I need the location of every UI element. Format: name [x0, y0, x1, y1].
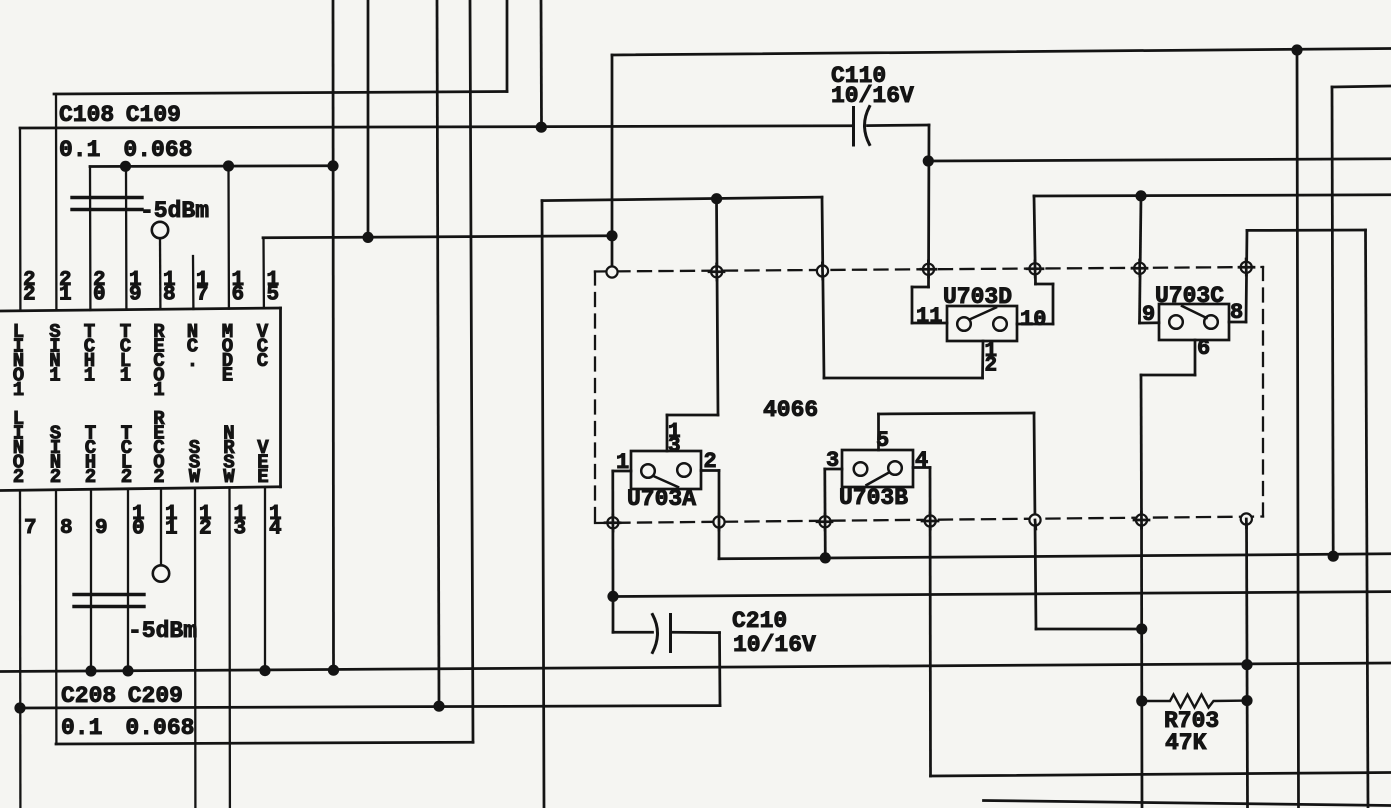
- wire U703B pin4 drop x=930: [929, 468, 932, 777]
- wire vertical x=1246 pin8 drop: [1246, 230, 1247, 322]
- wire vertical x=1332: [1332, 87, 1333, 556]
- junction x333 bottom: [328, 665, 339, 676]
- pin 9 lead: [90, 489, 92, 671]
- svg-text:6: 6: [232, 284, 245, 307]
- svg-text:1: 1: [59, 284, 72, 307]
- svg-text:10/16V: 10/16V: [733, 632, 816, 658]
- svg-text:U703D: U703D: [943, 284, 1012, 310]
- junction ctrlA y199: [711, 193, 722, 204]
- junction pin3 y557: [820, 552, 831, 563]
- svg-text:8: 8: [1230, 300, 1243, 325]
- svg-text:4: 4: [915, 448, 928, 473]
- wire vertical x=543 long: [542, 201, 544, 808]
- svg-text:2: 2: [704, 449, 717, 474]
- wire vertical x=1035 pin10 drop: [1034, 196, 1036, 284]
- junction C108 top: [120, 161, 131, 172]
- junction pin16 bus: [223, 160, 234, 171]
- wire vertical x=929 C110 drop: [927, 125, 930, 287]
- capacitor C210: [653, 615, 658, 653]
- wire vertical x=471: [470, 0, 473, 742]
- svg-text:C108 C109: C108 C109: [59, 102, 181, 128]
- pin 19 lead: [125, 166, 128, 309]
- pin 14 lead: [264, 487, 266, 671]
- test point TP1 -5dBm: [152, 222, 168, 238]
- wire vertical x=1035 ctrlB drop: [1034, 413, 1036, 629]
- junction x1141 y196: [1135, 190, 1146, 201]
- wire U703C pin8 lead: [1229, 321, 1246, 324]
- 4066 boundary pin node x=1035 top: [1029, 263, 1040, 274]
- svg-text:W: W: [223, 466, 235, 488]
- wire net y=802 bottom: [984, 801, 1391, 806]
- junction C209 bus: [122, 665, 133, 676]
- wire net y=706: [20, 706, 720, 708]
- wire U703A pin2 drop x=719: [718, 471, 721, 559]
- junction C208 bus: [85, 665, 96, 676]
- U703A ctrl stub pin13: [666, 415, 669, 451]
- svg-text:8: 8: [60, 517, 73, 540]
- svg-text:5: 5: [876, 428, 889, 453]
- wire U703B pin3 drop x=825: [823, 469, 826, 558]
- junction R703 right: [1241, 695, 1252, 706]
- 4066 boundary pin node x=1139 top: [1134, 263, 1145, 274]
- wire net y=195.5: [1034, 195, 1391, 196]
- svg-text:10/16V: 10/16V: [831, 83, 914, 109]
- pin 17 lead: [192, 256, 195, 309]
- wire U703D pin10 bracket: [1036, 283, 1054, 286]
- wire ctrlD horiz y=378: [824, 377, 983, 380]
- svg-text:-5dBm: -5dBm: [140, 198, 209, 224]
- 4066 boundary pin node x=1035 bottom stub: [1034, 520, 1038, 529]
- junction x1332 y556: [1328, 551, 1339, 562]
- svg-text:E: E: [222, 365, 233, 387]
- svg-text:7: 7: [196, 284, 209, 307]
- wire pin22 bus y=127 left of C110: [20, 126, 853, 128]
- pin 15 lead: [262, 238, 265, 308]
- pin 22 lead: [19, 128, 22, 311]
- wire U703D pin11 bracket: [912, 286, 929, 289]
- svg-text:3: 3: [234, 518, 247, 541]
- wire U703B pin4 lead: [913, 466, 930, 469]
- capacitor C110: [852, 108, 855, 146]
- junction x20 y708: [14, 702, 25, 713]
- wire U703A pin2 lead: [701, 469, 719, 472]
- wire vertical x=1140 pin9 drop: [1140, 196, 1142, 323]
- junction x439 y706: [433, 701, 444, 712]
- junction ctrl y629: [1136, 623, 1147, 634]
- svg-text:-5dBm: -5dBm: [128, 618, 197, 644]
- wire vertical x=717 ctrlA drop: [717, 199, 719, 415]
- wire cap top bus y=166: [90, 164, 333, 167]
- 4066 boundary pin node x=613 bottom: [607, 517, 618, 528]
- svg-text:6: 6: [1197, 336, 1210, 361]
- wire C210 left drop: [612, 597, 615, 633]
- 4066 boundary pin node x=1034 bottom: [1029, 514, 1040, 525]
- pin 13 lead: [228, 487, 231, 808]
- wire VCC bus y=237: [263, 236, 612, 238]
- IC U201 package box: [0, 308, 281, 311]
- svg-text:0: 0: [132, 518, 145, 541]
- junction pin14 bus: [259, 665, 270, 676]
- pin 20 lead: [89, 167, 92, 311]
- wire C110 right to corner: [868, 124, 930, 127]
- svg-text:.: .: [187, 350, 198, 372]
- pin 21 lead: [55, 94, 58, 310]
- svg-text:2: 2: [23, 284, 36, 307]
- svg-text:1: 1: [13, 379, 24, 401]
- wire ctrlC horiz y=375: [1141, 374, 1195, 377]
- pin 7 lead: [19, 490, 22, 808]
- 4066 boundary pin node x=1142 bottom: [1136, 514, 1147, 525]
- svg-text:2: 2: [50, 466, 61, 488]
- svg-text:E: E: [257, 466, 268, 488]
- pin 8 lead: [55, 490, 58, 744]
- U703B ctrl stub pin5: [877, 414, 880, 450]
- svg-text:11: 11: [916, 304, 942, 329]
- pin 12 lead: [194, 488, 197, 808]
- wire vertical x=541 top: [540, 0, 543, 128]
- svg-text:1: 1: [120, 365, 131, 387]
- junction x541 y128: [536, 122, 547, 133]
- svg-text:9: 9: [129, 284, 142, 307]
- 4066 boundary pin node x=612 top: [606, 266, 617, 277]
- svg-text:4: 4: [269, 518, 282, 541]
- svg-text:2: 2: [153, 466, 164, 488]
- junction C210 x613: [607, 591, 618, 602]
- wire C210 left lead: [613, 631, 653, 634]
- junction x1297 y50: [1291, 44, 1302, 55]
- svg-text:8: 8: [163, 284, 176, 307]
- IC 4066 package dashed border: [595, 267, 1263, 523]
- wire C210 right lead: [671, 631, 720, 634]
- pin 10 lead: [127, 489, 129, 671]
- svg-text:1: 1: [153, 379, 164, 401]
- 4066 boundary pin node x=1246 bottom stub: [1245, 519, 1248, 528]
- wire main bus y=667: [0, 663, 1391, 672]
- resistor R703: [1142, 695, 1247, 708]
- analog switch U703C: [1155, 283, 1229, 340]
- svg-text:3: 3: [826, 448, 839, 473]
- svg-text:C: C: [257, 350, 268, 372]
- junction C110 y161: [923, 155, 934, 166]
- wire ctrlB bottom y=629: [1036, 628, 1142, 631]
- pin 11 lead: [160, 488, 162, 565]
- wire net y=230 right: [1247, 229, 1366, 232]
- svg-text:0.1 0.068: 0.1 0.068: [61, 715, 194, 741]
- U703D ctrl stub pin12: [981, 341, 984, 378]
- wire U703B pin3 lead: [825, 468, 842, 471]
- wire net y=557: [719, 554, 1391, 559]
- svg-text:1: 1: [84, 365, 95, 387]
- svg-text:1: 1: [165, 518, 178, 541]
- svg-text:U703C: U703C: [1155, 283, 1224, 309]
- wire vertical x=823 ctrlD drop: [822, 197, 824, 378]
- 4066 boundary pin node x=1246 bottom: [1241, 513, 1252, 524]
- junction R703 left: [1136, 695, 1147, 706]
- wire ctrlB horiz y=414: [879, 413, 1035, 414]
- svg-text:47K: 47K: [1165, 730, 1207, 756]
- wire vertical x=1366: [1366, 230, 1369, 808]
- wire vertical x=1297: [1297, 50, 1299, 808]
- svg-text:4066: 4066: [763, 397, 818, 423]
- svg-text:5: 5: [267, 284, 280, 307]
- wire ctrl bus y=199: [542, 197, 822, 200]
- U703C ctrl stub pin6: [1194, 340, 1197, 375]
- analog switch U703D: [943, 284, 1017, 341]
- wire vertical x=438: [437, 0, 439, 706]
- 4066 boundary pin node x=1246 top: [1241, 262, 1252, 273]
- wire net y=743: [56, 742, 473, 744]
- svg-text:3: 3: [668, 435, 681, 458]
- wire vertical x=333: [332, 0, 335, 671]
- svg-text:9: 9: [1142, 302, 1155, 327]
- svg-text:W: W: [189, 466, 201, 488]
- wire C210 right drop x=720: [718, 633, 721, 706]
- svg-text:2: 2: [985, 355, 998, 378]
- wire net y=160: [928, 159, 1391, 161]
- capacitor C108/C109 plates top: [72, 196, 142, 199]
- svg-text:10: 10: [1020, 307, 1046, 332]
- test point TP2 -5dBm: [153, 565, 169, 581]
- wire pin21 bus y=93: [54, 92, 507, 95]
- svg-text:2: 2: [13, 466, 24, 488]
- svg-text:2: 2: [85, 466, 96, 488]
- 4066 boundary pin node x=822 top: [817, 265, 828, 276]
- svg-text:2: 2: [121, 466, 132, 488]
- wire U703C pin9 lead: [1140, 321, 1160, 324]
- wire ctrlA horiz y=415: [667, 414, 718, 417]
- wire vertical x=1247 lower: [1247, 519, 1248, 808]
- junction VCC x612: [606, 230, 617, 241]
- 4066 boundary pin node x=825 bottom: [819, 516, 830, 527]
- pin 18 lead: [159, 238, 162, 309]
- wire vertical x=368: [367, 0, 370, 237]
- junction x1247 bus: [1241, 659, 1252, 670]
- junction x333 bus: [327, 160, 338, 171]
- svg-text:7: 7: [24, 517, 37, 540]
- pin 16 lead: [227, 166, 230, 309]
- svg-text:1: 1: [49, 365, 60, 387]
- svg-text:C210: C210: [732, 608, 787, 634]
- svg-text:U703B: U703B: [839, 485, 908, 511]
- 4066 boundary pin node x=928 top: [923, 264, 934, 275]
- svg-text:0: 0: [93, 284, 106, 307]
- wire corner up x=507: [506, 0, 509, 92]
- svg-text:U703A: U703A: [627, 486, 696, 512]
- svg-text:2: 2: [199, 518, 212, 541]
- wire net T1 top bus y=52: [612, 49, 1391, 56]
- 4066 boundary pin node x=719 bottom: [713, 516, 724, 527]
- wire vertical x=612 VCC drop: [611, 55, 614, 272]
- analog switch U703A: [627, 451, 701, 512]
- analog switch U703B: [839, 450, 913, 511]
- wire net y=594: [613, 592, 1391, 597]
- wire U703A pin1 drop x=613: [611, 471, 614, 597]
- 4066 boundary pin node x=716 top: [711, 266, 722, 277]
- junction x368 y237: [362, 232, 373, 243]
- svg-text:0.1 0.068: 0.1 0.068: [59, 137, 192, 163]
- wire vertical x=1141 ctrlC: [1140, 375, 1143, 520]
- svg-text:9: 9: [95, 517, 108, 540]
- svg-text:C208 C209: C208 C209: [61, 683, 183, 709]
- 4066 boundary pin node x=930 bottom: [925, 515, 936, 526]
- wire U703A pin1 lead: [613, 470, 631, 473]
- wire net y=775 bottom right: [931, 773, 1391, 777]
- svg-text:1: 1: [616, 450, 629, 475]
- wire net T2 right entry y=87: [1332, 86, 1391, 87]
- capacitor C208/C209 plates bottom: [74, 593, 144, 596]
